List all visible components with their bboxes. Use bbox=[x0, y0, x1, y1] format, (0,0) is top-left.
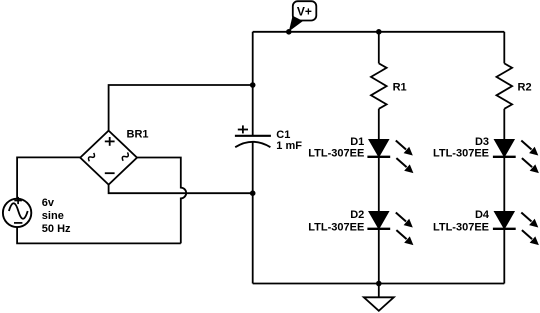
wire bottom rail bbox=[253, 283, 505, 285]
value label 6v sine 50 Hz bbox=[42, 197, 71, 235]
LED D1 bbox=[367, 140, 413, 174]
junction ground tap on bottom rail bbox=[376, 281, 382, 287]
wire D2 to bottom rail bbox=[378, 229, 380, 284]
AC voltage source V1 (6v sine 50 Hz) bbox=[3, 197, 31, 227]
svg-text:V+: V+ bbox=[297, 5, 312, 19]
LED D2 bbox=[367, 212, 413, 246]
wire bridge minus output to left rail bbox=[109, 185, 253, 194]
wire AC source top to bridge AC left terminal bbox=[17, 157, 80, 198]
wire R1 top stub bbox=[378, 32, 380, 64]
wire D1 to D2 bbox=[378, 157, 380, 212]
svg-text:LTL-307EE: LTL-307EE bbox=[308, 147, 364, 159]
resistor R1 bbox=[371, 63, 387, 108]
svg-text:50 Hz: 50 Hz bbox=[42, 223, 71, 235]
wire top rail bbox=[253, 31, 505, 33]
wire D4 to bottom rail bbox=[503, 229, 505, 284]
wire AC source bottom to lower return bbox=[17, 227, 181, 243]
svg-text:R2: R2 bbox=[518, 82, 532, 94]
LED D4 bbox=[493, 212, 539, 246]
LED D3 bbox=[493, 140, 539, 174]
ground bbox=[364, 284, 394, 311]
svg-text:R1: R1 bbox=[393, 82, 407, 94]
capacitor C1 bbox=[235, 125, 271, 147]
wire bridge AC right terminal down with hop over minus wire bbox=[137, 158, 186, 244]
bridge rectifier BR1 bbox=[80, 131, 137, 185]
junction R1 branch on top rail bbox=[376, 29, 382, 35]
svg-text:6v: 6v bbox=[42, 197, 55, 209]
svg-text:sine: sine bbox=[42, 210, 64, 222]
svg-text:LTL-307EE: LTL-307EE bbox=[308, 221, 364, 233]
svg-text:LTL-307EE: LTL-307EE bbox=[433, 147, 489, 159]
svg-text:D1: D1 bbox=[350, 136, 364, 148]
svg-text:D4: D4 bbox=[475, 209, 490, 221]
svg-text:1 mF: 1 mF bbox=[276, 140, 302, 152]
wire R2 to D3 bbox=[503, 109, 505, 140]
wire bridge plus output to left rail bbox=[109, 85, 253, 131]
svg-text:BR1: BR1 bbox=[127, 129, 149, 141]
junction bridge plus on left rail bbox=[250, 82, 256, 88]
node V+ flag bbox=[289, 1, 317, 31]
svg-text:LTL-307EE: LTL-307EE bbox=[433, 221, 489, 233]
wire left rail lower (C1 bottom to bottom rail) bbox=[252, 142, 254, 284]
wire left rail upper (top rail to C1 top plate) bbox=[252, 32, 254, 136]
svg-text:D2: D2 bbox=[350, 209, 364, 221]
junction V+ tap on top rail bbox=[286, 29, 292, 35]
svg-text:D3: D3 bbox=[475, 136, 489, 148]
wire D3 to D4 bbox=[503, 157, 505, 212]
wire R1 to D1 bbox=[378, 109, 380, 140]
resistor R2 bbox=[497, 63, 513, 108]
wire right rail (top rail to R2) bbox=[503, 32, 505, 64]
junction bridge minus on left rail bbox=[250, 190, 256, 196]
